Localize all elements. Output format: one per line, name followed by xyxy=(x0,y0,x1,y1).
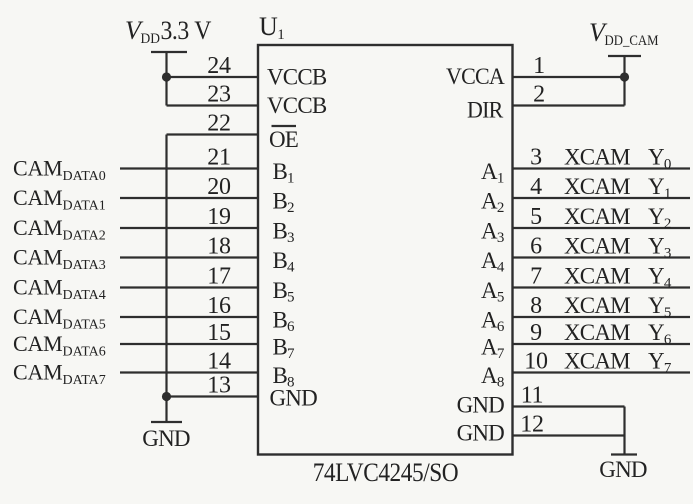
junction dot at VDD_CAM bus / pin 1 wire xyxy=(620,72,629,81)
wire pin 22 (OE) to left ground bus xyxy=(167,133,259,135)
svg-text:12: 12 xyxy=(520,412,543,438)
svg-text:GND: GND xyxy=(599,457,647,482)
svg-text:B7: B7 xyxy=(273,335,296,363)
svg-text:7: 7 xyxy=(530,264,542,290)
svg-text:XCAM: XCAM xyxy=(564,204,630,229)
svg-text:A4: A4 xyxy=(481,248,505,276)
svg-text:18: 18 xyxy=(207,234,231,260)
svg-text:A5: A5 xyxy=(481,278,504,306)
svg-text:11: 11 xyxy=(521,383,544,409)
svg-text:22: 22 xyxy=(207,111,230,137)
svg-text:GND: GND xyxy=(457,421,505,446)
svg-text:4: 4 xyxy=(530,174,542,200)
wire CAM_DATA1 to pin 20 (B2) xyxy=(120,197,258,199)
svg-text:A3: A3 xyxy=(481,219,504,247)
svg-text:Y5: Y5 xyxy=(648,293,671,321)
svg-text:5: 5 xyxy=(530,204,542,230)
svg-text:CAMDATA1: CAMDATA1 xyxy=(13,185,106,214)
svg-text:CAMDATA3: CAMDATA3 xyxy=(13,245,106,274)
svg-text:B6: B6 xyxy=(273,308,296,336)
junction dot at VDD bus / pin 24 wire xyxy=(162,72,171,81)
ground symbol bar (left GND) xyxy=(151,421,182,423)
svg-text:2: 2 xyxy=(533,82,545,108)
svg-text:CAMDATA7: CAMDATA7 xyxy=(13,360,106,389)
power symbol VDD 3.3V bar xyxy=(151,51,187,53)
wire CAM_DATA4 to pin 17 (B5) xyxy=(120,286,258,288)
wire CAM_DATA5 to pin 16 (B6) xyxy=(120,316,258,318)
wire pin 9 (A7) XCAM Y6 net xyxy=(513,343,691,345)
svg-text:24: 24 xyxy=(207,53,231,79)
svg-text:13: 13 xyxy=(207,373,231,399)
svg-text:10: 10 xyxy=(524,349,548,375)
svg-text:15: 15 xyxy=(207,320,231,346)
svg-text:XCAM: XCAM xyxy=(564,320,630,345)
svg-text:CAMDATA0: CAMDATA0 xyxy=(13,156,106,185)
svg-text:Y1: Y1 xyxy=(648,174,671,202)
wire CAM_DATA3 to pin 18 (B4) xyxy=(120,256,258,258)
svg-text:B5: B5 xyxy=(273,278,295,306)
svg-text:20: 20 xyxy=(207,174,231,200)
svg-text:CAMDATA6: CAMDATA6 xyxy=(13,331,106,360)
svg-text:XCAM: XCAM xyxy=(564,293,630,318)
svg-text:DD: DD xyxy=(141,31,161,47)
wire VDD vertical down from bar to pin 23 wire xyxy=(165,52,167,106)
svg-text:B4: B4 xyxy=(273,248,296,276)
svg-text:A2: A2 xyxy=(481,189,504,217)
wire CAM_DATA7 to pin 14 (B8) xyxy=(120,371,258,373)
IC U1 body: 74LVC4245/SO level translator outline xyxy=(258,45,513,455)
wire pin 24 (VCCB) to VDD bus xyxy=(167,76,259,78)
junction dot at ground bus / pin 13 wire xyxy=(162,392,171,401)
wire pin 6 (A4) XCAM Y3 net xyxy=(513,256,691,258)
svg-text:GND: GND xyxy=(142,426,190,451)
wire pin 4 (A2) XCAM Y1 net xyxy=(513,197,691,199)
svg-text:74LVC4245/SO: 74LVC4245/SO xyxy=(313,458,459,487)
svg-text:Y7: Y7 xyxy=(648,349,672,377)
wire pin 7 (A5) XCAM Y4 net xyxy=(513,286,691,288)
ground symbol bar (right GND) xyxy=(611,453,637,455)
wire CAM_DATA2 to pin 19 (B3) xyxy=(120,227,258,229)
svg-text:XCAM: XCAM xyxy=(564,174,630,199)
svg-text:Y4: Y4 xyxy=(648,264,672,292)
svg-text:A8: A8 xyxy=(481,363,504,391)
svg-text:21: 21 xyxy=(207,145,230,171)
wire right ground vertical down to GND bar xyxy=(623,407,625,455)
svg-text:Y3: Y3 xyxy=(648,234,671,262)
svg-text:XCAM: XCAM xyxy=(564,264,630,289)
svg-text:DIR: DIR xyxy=(467,98,504,123)
svg-text:8: 8 xyxy=(530,293,542,319)
svg-text:A1: A1 xyxy=(481,159,504,187)
svg-text:9: 9 xyxy=(530,320,542,346)
svg-text:23: 23 xyxy=(207,82,231,108)
wire pin 13 (GND) to left ground bus xyxy=(167,395,259,397)
wire pin 10 (A8) XCAM Y7 net xyxy=(513,371,691,373)
svg-text:VCCB: VCCB xyxy=(267,65,327,90)
overline for OE xyxy=(272,125,297,127)
svg-text:6: 6 xyxy=(530,234,542,260)
svg-text:U1: U1 xyxy=(259,12,285,43)
svg-text:CAMDATA4: CAMDATA4 xyxy=(13,275,106,304)
svg-text:XCAM: XCAM xyxy=(564,234,630,259)
svg-text:CAMDATA5: CAMDATA5 xyxy=(13,304,106,333)
wire pin 11 (GND) to right ground xyxy=(513,405,625,407)
svg-text:DD_CAM: DD_CAM xyxy=(605,33,659,49)
svg-text:Y6: Y6 xyxy=(648,320,672,348)
svg-text:CAMDATA2: CAMDATA2 xyxy=(13,215,106,244)
power symbol VDD_CAM bar xyxy=(608,55,641,57)
wire CAM_DATA0 to pin 21 (B1) xyxy=(120,167,258,169)
svg-text:Y2: Y2 xyxy=(648,204,671,232)
svg-text:17: 17 xyxy=(207,264,231,290)
wire left ground bus vertical from pin 22 down to GND bar xyxy=(165,135,167,423)
svg-text:XCAM: XCAM xyxy=(564,145,630,170)
wire pin 23 (VCCB) to VDD bus xyxy=(167,104,259,106)
svg-text:GND: GND xyxy=(457,393,505,418)
svg-text:3: 3 xyxy=(530,145,542,171)
wire pin 5 (A3) XCAM Y2 net xyxy=(513,227,691,229)
svg-text:XCAM: XCAM xyxy=(564,349,630,374)
svg-text:VCCA: VCCA xyxy=(446,64,505,89)
svg-text:B2: B2 xyxy=(273,189,295,217)
svg-text:19: 19 xyxy=(207,204,231,230)
svg-text:1: 1 xyxy=(533,53,545,79)
svg-text:14: 14 xyxy=(207,349,231,375)
svg-text:Y0: Y0 xyxy=(648,145,671,173)
svg-text:VCCB: VCCB xyxy=(267,93,327,118)
wire pin 3 (A1) XCAM Y0 net xyxy=(513,167,691,169)
svg-text:OE: OE xyxy=(269,127,298,152)
svg-text:B3: B3 xyxy=(273,219,295,247)
wire pin 1 (VCCA) to VDD_CAM bus xyxy=(513,76,625,78)
wire pin 12 (GND) joins right ground vertical xyxy=(513,434,625,436)
svg-text:A7: A7 xyxy=(481,335,505,363)
svg-text:16: 16 xyxy=(207,293,231,319)
wire CAM_DATA6 to pin 15 (B7) xyxy=(120,343,258,345)
wire pin 2 (DIR) to VDD_CAM bus xyxy=(513,104,625,106)
svg-text:B1: B1 xyxy=(273,159,295,187)
wire VDD_CAM vertical down from bar to pin 2 wire xyxy=(623,56,625,106)
svg-text:A6: A6 xyxy=(481,308,505,336)
svg-text:GND: GND xyxy=(270,386,318,411)
wire pin 8 (A6) XCAM Y5 net xyxy=(513,316,691,318)
svg-text:3.3 V: 3.3 V xyxy=(161,16,212,45)
